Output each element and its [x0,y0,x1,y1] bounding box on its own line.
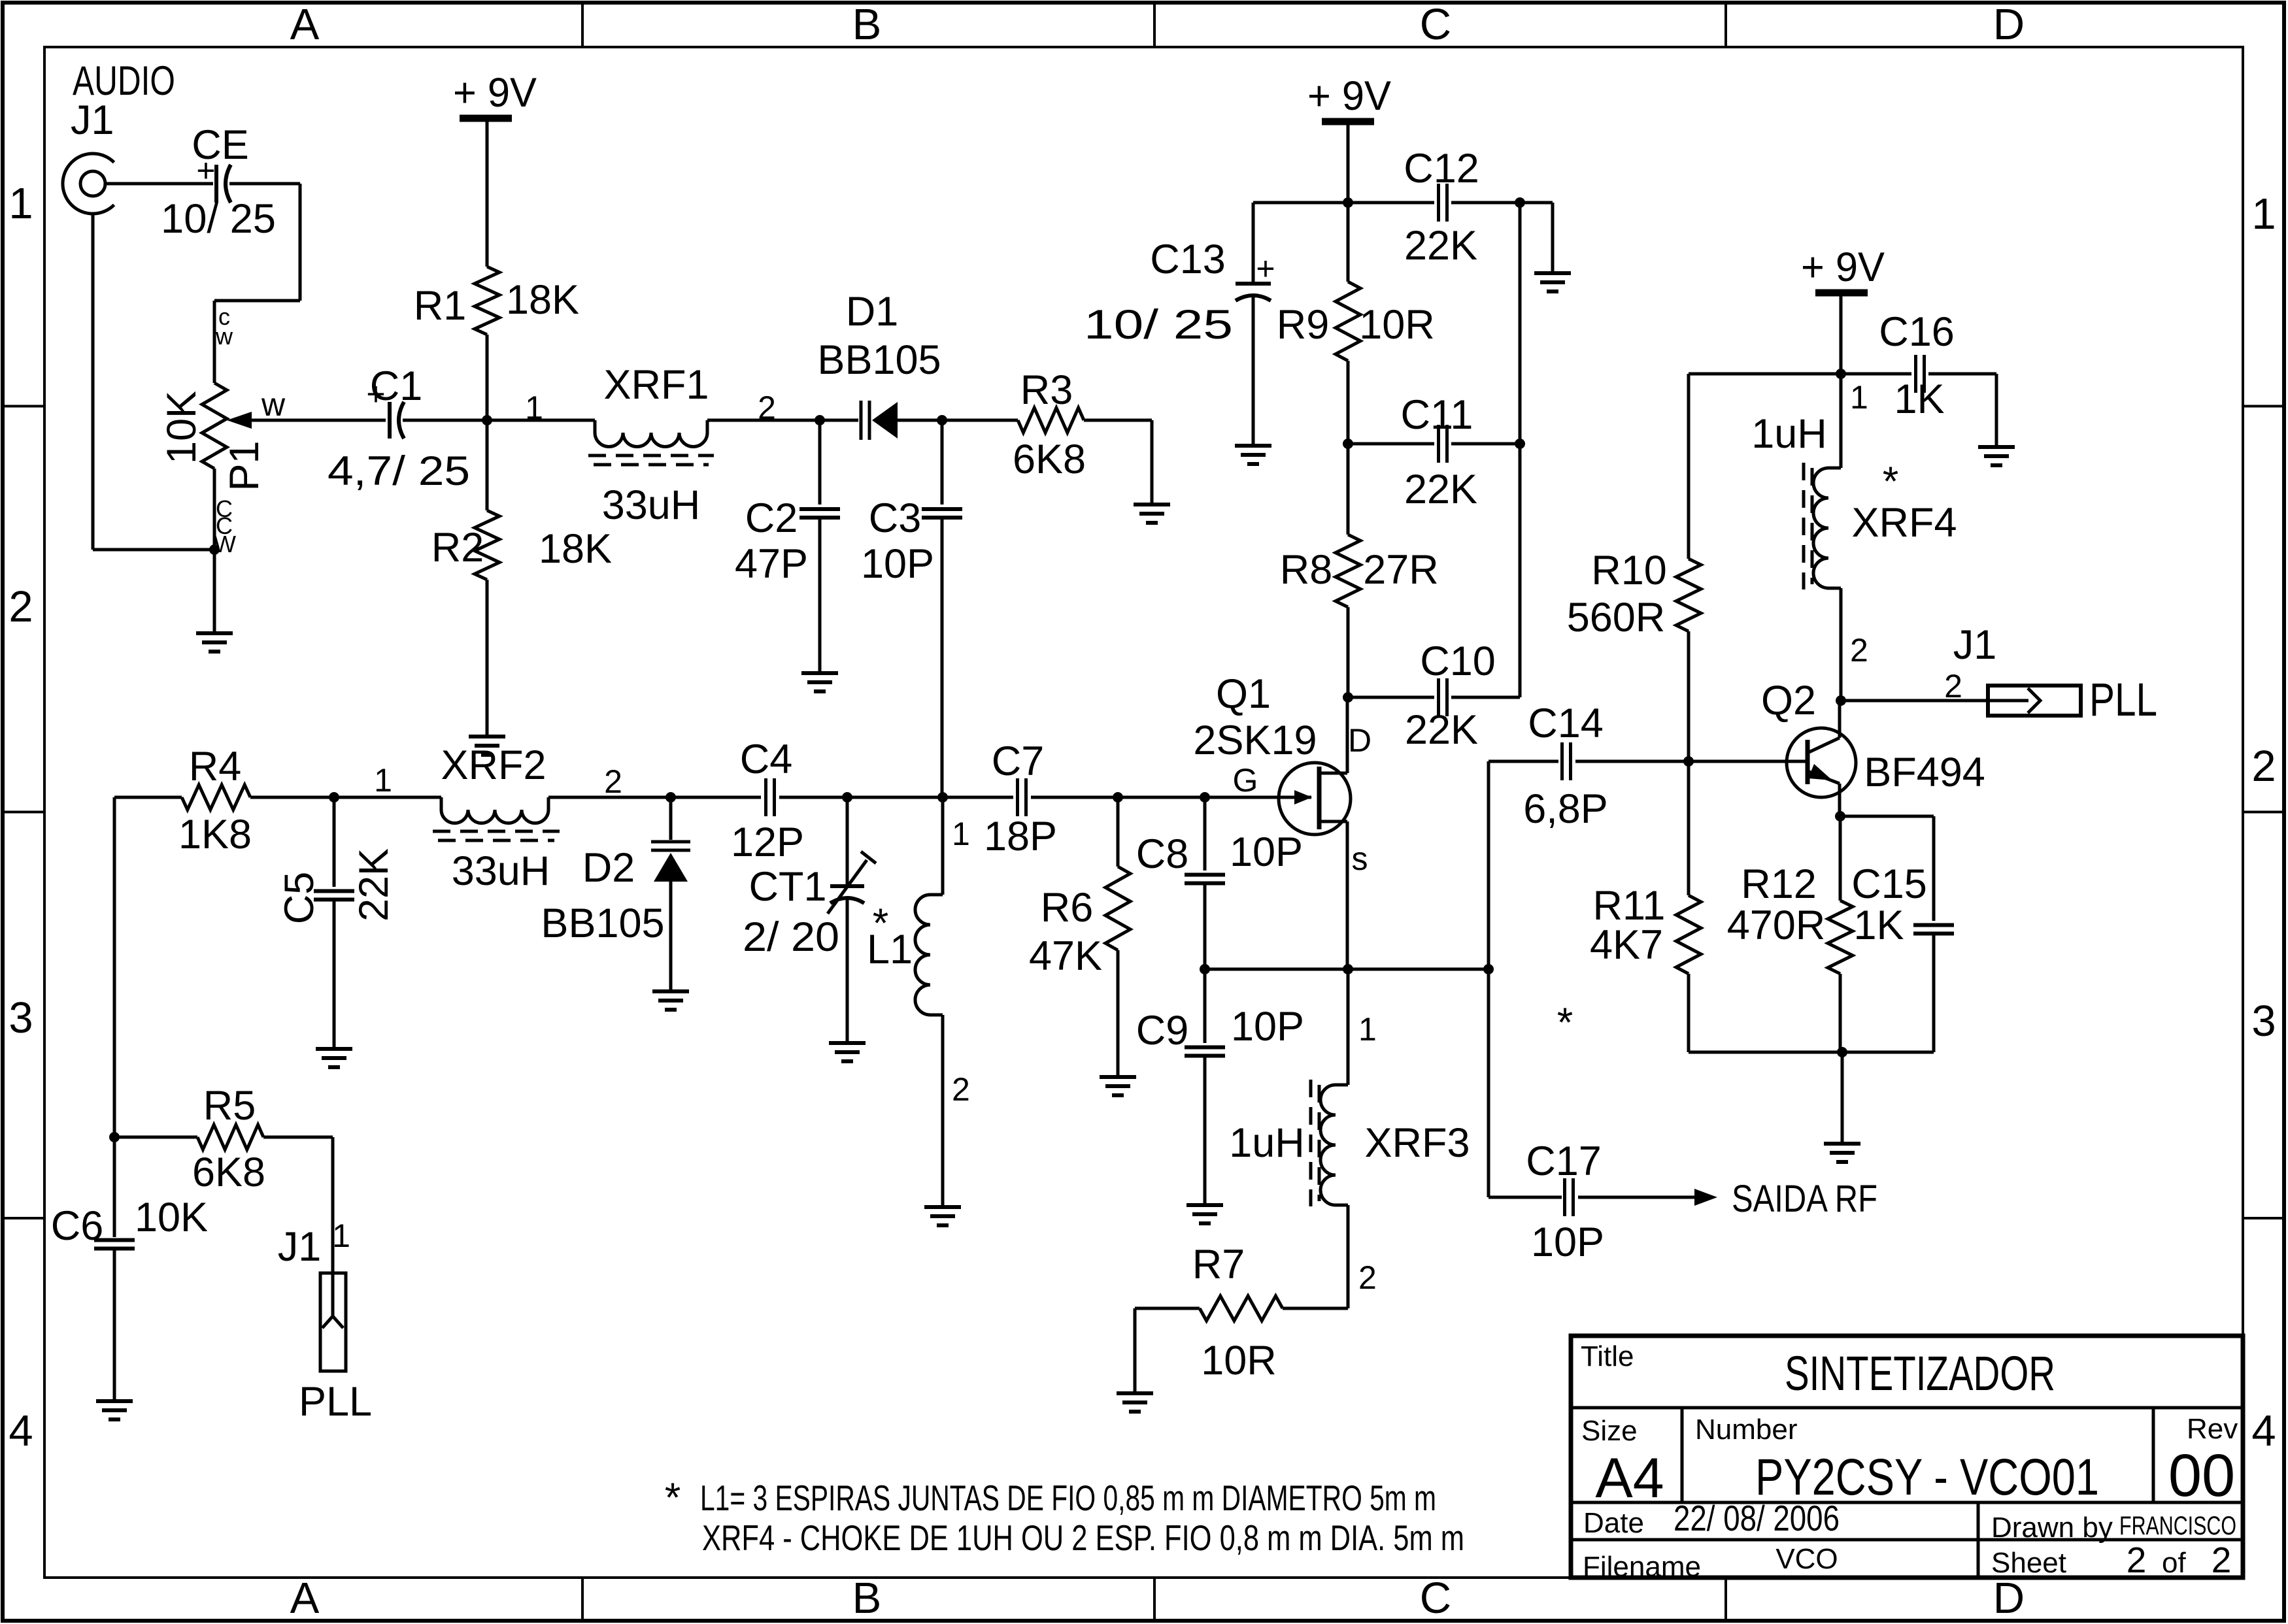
ground CT1 [829,1041,866,1045]
svg-text:1: 1 [374,762,392,799]
svg-text:C6: C6 [51,1203,104,1249]
wire C11 rail [1348,442,1434,446]
svg-text:of: of [2162,1547,2186,1579]
svg-text:XRF2: XRF2 [441,742,546,788]
capacitor C13 10/25 electrolytic [1252,203,1255,284]
svg-text:CT1: CT1 [749,864,826,910]
resistor R3 6K8 [1018,408,1084,433]
svg-text:R8: R8 [1280,547,1333,593]
node Q2 collector/XRF4/J1 junction [1836,695,1846,706]
svg-text:C17: C17 [1526,1138,1602,1184]
node C8 junction [1200,792,1210,803]
capacitor C7 18P [1016,778,1019,816]
svg-text:C11: C11 [1401,392,1473,438]
potentiometer P1 10K [202,383,227,469]
core lines XRF3 [1309,1080,1313,1206]
svg-text:10P: 10P [861,541,934,587]
svg-text:1K: 1K [1853,903,1904,948]
svg-text:1: 1 [332,1218,350,1254]
ground P1 [196,631,233,635]
connector J1 AUDIO jack [63,154,114,214]
node C5 junction [329,792,339,803]
diode D1 BB105 varicap [861,401,898,440]
svg-text:10/ 25: 10/ 25 [161,196,276,242]
svg-text:C12: C12 [1404,146,1479,191]
arrow SAIDA RF [1694,1189,1717,1206]
resistor R2 18K [475,510,499,580]
svg-text:4: 4 [2251,1406,2276,1455]
title block frame [1571,1336,2243,1578]
node C2/D1 junction [815,415,825,425]
wire mid top rail [1253,201,1434,205]
ground C5 [316,1047,352,1051]
capacitor C1 4,7/25 electrolytic [390,402,404,439]
core lines XRF1 [588,454,714,457]
resistor R6 47K [1117,797,1120,867]
wire R5 to J1 PLL [263,1136,333,1139]
svg-text:22K: 22K [1405,707,1478,753]
svg-text:18P: 18P [984,814,1057,859]
ground C9 [1186,1203,1223,1207]
capacitor C12 22K [1437,184,1440,222]
wire C12 to ground [1520,201,1553,205]
svg-text:+: + [196,152,215,189]
ground Q2 emitter [1824,1142,1860,1146]
svg-text:1K: 1K [1894,376,1944,422]
svg-text:10/ 25: 10/ 25 [1084,302,1233,348]
wire XRF2 to C4 [548,796,761,799]
svg-text:1: 1 [2251,190,2276,239]
svg-text:D: D [1993,0,2025,49]
svg-text:4,7/ 25: 4,7/ 25 [328,448,470,494]
svg-text:Rev: Rev [2187,1413,2238,1445]
capacitor C11 22K [1437,425,1440,463]
svg-text:1K8: 1K8 [178,812,252,857]
ground C6 [96,1399,133,1403]
svg-text:2: 2 [2251,742,2276,791]
svg-text:R10: R10 [1591,548,1667,593]
svg-text:R9: R9 [1277,302,1330,348]
node C14 corner junction [1483,964,1494,974]
transistor Q1 2SK19 JFET [1279,763,1351,835]
svg-text:SINTETIZADOR: SINTETIZADOR [1785,1346,2055,1400]
resistor R10 560R [1687,374,1691,559]
svg-text:C16: C16 [1879,309,1955,355]
svg-text:2: 2 [8,582,33,631]
svg-text:33uH: 33uH [452,848,550,894]
svg-text:+: + [1256,250,1275,287]
node R1/R2/C1/XRF1 junction [482,415,492,425]
svg-text:47K: 47K [1029,933,1102,979]
svg-text:A: A [290,0,320,49]
capacitor C6 10K [94,1238,135,1242]
resistor R7 10R [1283,1307,1348,1310]
wire wiper to C1 [252,419,386,422]
svg-text:1uH: 1uH [1751,411,1827,457]
svg-text:Date: Date [1583,1507,1644,1539]
svg-text:1: 1 [525,389,543,426]
inductor XRF1 33uH [595,420,707,447]
svg-text:22/ 08/ 2006: 22/ 08/ 2006 [1674,1498,1840,1538]
svg-text:2: 2 [2127,1540,2147,1580]
svg-text:Sheet: Sheet [1991,1547,2066,1579]
wire R3 to ground [1084,419,1152,422]
ground C16 [1978,445,2015,449]
resistor R4 1K8 [182,785,250,810]
wire C14 column [1487,761,1490,969]
inductor L1 [941,797,945,895]
svg-text:22K: 22K [1404,467,1477,512]
svg-text:L1= 3 ESPIRAS JUNTAS DE F: L1= 3 ESPIRAS JUNTAS DE FIO 0,85 m m DIA… [700,1478,1436,1518]
svg-text:10P: 10P [1531,1219,1604,1265]
svg-text:Size: Size [1581,1415,1638,1447]
wire junction to R2 [486,420,489,510]
inductor XRF3 1uH [1347,969,1350,1085]
column tick marks top band [581,3,584,47]
wire C16 to ground [1995,374,1998,447]
svg-text:C8: C8 [1136,831,1189,877]
svg-text:6,8P: 6,8P [1523,786,1608,832]
node +9V/R9/C12 junction [1343,197,1353,208]
svg-text:00: 00 [2168,1442,2235,1509]
svg-text:C13: C13 [1150,237,1226,282]
wire right rail [1689,373,1911,376]
wire emitter to C15 [1840,815,1934,818]
resistor R8 27R [1347,444,1350,535]
capacitor CE 10/25 electrolytic [216,165,231,203]
node R10/R11/base junction [1683,756,1694,767]
svg-text:FRANCISCO: FRANCISCO [2119,1512,2236,1540]
power +9V (right) [1801,244,1885,293]
svg-text:2/ 20: 2/ 20 [743,914,839,960]
svg-text:D: D [1993,1574,2025,1623]
svg-text:47P: 47P [735,541,808,587]
column tick marks bottom band [581,1578,584,1621]
svg-text:PLL: PLL [299,1379,372,1425]
wire +9V mid to rail [1347,122,1350,203]
node emitter junction [1835,811,1845,821]
ground R6 [1100,1075,1136,1079]
svg-text:R12: R12 [1741,861,1817,907]
wire C17 column [1487,969,1490,1197]
capacitor C17 10P [1489,1196,1562,1199]
svg-text:R6: R6 [1041,885,1094,931]
svg-text:Q2: Q2 [1761,678,1816,723]
svg-text:1: 1 [1850,379,1868,416]
svg-text:BF494: BF494 [1864,750,1985,795]
svg-text:C7: C7 [992,738,1045,784]
resistor R5 6K8 [197,1125,263,1150]
svg-text:3: 3 [8,993,33,1042]
svg-text:J1: J1 [71,97,114,143]
svg-text:10P: 10P [1230,829,1303,875]
svg-text:XRF1: XRF1 [603,362,709,408]
svg-text:4: 4 [8,1406,33,1455]
wire left column R4 down [113,797,116,1237]
svg-text:+ 9V: + 9V [1801,244,1885,290]
svg-text:C5: C5 [277,872,322,925]
ground D2 [652,989,689,993]
svg-text:33uH: 33uH [602,482,701,528]
svg-text:A: A [290,1574,320,1623]
trimmer capacitor CT1 2/20 [846,797,849,886]
wire source bus [1205,968,1489,971]
capacitor C15 1K [1913,923,1954,927]
node D2 junction [665,792,676,803]
node emitter bus ground junction [1837,1047,1847,1057]
wire right vertical C12-C10 [1519,203,1522,697]
svg-text:+ 9V: + 9V [453,70,537,116]
svg-text:C14: C14 [1528,701,1604,746]
svg-text:*: * [1557,1000,1573,1046]
connector J1 PLL (right) [1988,686,2081,716]
wire gate bus left segment [114,796,182,799]
svg-text:6K8: 6K8 [1013,437,1086,482]
wire R2 to ground [486,580,489,737]
svg-text:2: 2 [1358,1259,1377,1296]
svg-text:D: D [1348,722,1371,759]
svg-text:1: 1 [1358,1011,1377,1048]
wire J1 down to pot bottom [92,212,95,550]
capacitor C9 10P [1203,969,1207,1043]
svg-text:1uH: 1uH [1229,1120,1305,1166]
svg-text:C9: C9 [1136,1008,1189,1053]
svg-text:Number: Number [1695,1414,1798,1446]
svg-text:Title: Title [1581,1340,1634,1372]
capacitor C5 22K [333,797,336,887]
node R6 junction [1113,792,1123,803]
wire XRF1 to D1 [707,419,858,422]
svg-text:2: 2 [1850,632,1868,669]
svg-text:PY2CSY - VCO01: PY2CSY - VCO01 [1755,1448,2099,1506]
svg-text:J1: J1 [1953,622,1997,668]
wire junction to XRF1 [487,419,595,422]
svg-text:27R: 27R [1363,547,1439,593]
wire R1 to junction [486,335,489,420]
ground R3 [1134,503,1170,506]
wire to ground Q2 [1841,1052,1844,1144]
ground C13 [1235,444,1271,448]
svg-text:C2: C2 [745,495,798,541]
svg-text:470R: 470R [1727,903,1826,948]
node C3/R3 junction [937,415,947,425]
svg-text:XRF4: XRF4 [1851,500,1957,546]
capacitor C4 12P [764,778,767,816]
svg-text:R2: R2 [431,525,484,571]
ground C2 [801,671,838,675]
node R5 junction [109,1132,120,1142]
wire D1 to C3 junction [898,419,1018,422]
svg-text:C3: C3 [869,495,922,541]
ground L1 [924,1205,961,1209]
svg-text:P1: P1 [222,440,267,491]
svg-text:R4: R4 [189,744,242,789]
svg-text:+ 9V: + 9V [1307,73,1391,119]
svg-text:2: 2 [604,763,622,800]
svg-text:*: * [1883,459,1899,505]
svg-text:C4: C4 [740,737,793,782]
node Q1 source/XRF3 junction [1343,964,1353,974]
svg-text:PLL: PLL [2089,674,2157,726]
row tick marks right band [2243,405,2284,408]
svg-text:G: G [1233,762,1258,799]
svg-text:2: 2 [2212,1540,2232,1580]
svg-text:D1: D1 [846,289,899,335]
wiper arrow of P1 [227,412,252,429]
svg-text:SAIDA RF: SAIDA RF [1732,1178,1877,1220]
svg-text:R7: R7 [1192,1242,1245,1287]
svg-text:XRF4 - CHOKE DE 1UH OU: XRF4 - CHOKE DE 1UH OU 2 ESP. FIO 0,8 m … [702,1517,1464,1558]
svg-text:XRF3: XRF3 [1364,1120,1470,1166]
svg-text:B: B [852,1574,882,1623]
svg-text:D2: D2 [582,845,635,891]
svg-text:J1: J1 [278,1224,322,1270]
wire J1 to CE [105,182,213,186]
transistor Q2 BF494 [1787,728,1856,797]
wire C4 to C7 [779,796,1013,799]
svg-text:10K: 10K [135,1195,208,1240]
svg-text:C: C [1420,1574,1451,1623]
svg-text:C15: C15 [1851,861,1927,907]
svg-text:2SK19: 2SK19 [1193,718,1317,763]
svg-text:A4: A4 [1595,1447,1664,1510]
capacitor C16 1K [1914,355,1917,393]
svg-text:C10: C10 [1420,638,1496,684]
node C12 right junction [1515,197,1525,208]
svg-text:R1: R1 [414,283,467,329]
wire R4 to XRF2 [250,796,441,799]
svg-text:3: 3 [2251,997,2276,1046]
svg-text:s: s [1352,840,1368,877]
node CT1 junction [842,792,852,803]
svg-text:10R: 10R [1359,302,1435,348]
wire collector to J1 PLL [1841,699,1988,703]
capacitor C10 22K [1437,678,1440,716]
svg-text:6K8: 6K8 [192,1150,265,1195]
power +9V (left) [453,70,537,118]
svg-text:1: 1 [8,179,33,228]
inductor XRF2 33uH [441,797,548,823]
wire bottom emitter bus [1689,1051,1934,1054]
svg-text:R3: R3 [1020,367,1073,413]
wire Q1 source down [1346,821,1349,969]
svg-text:w: w [215,323,233,350]
svg-text:22K: 22K [351,848,397,921]
svg-text:w: w [261,386,286,423]
svg-text:B: B [852,0,882,49]
wire Q2 emitter down [1838,784,1842,816]
wire C10 rail [1348,696,1434,699]
svg-text:12P: 12P [731,820,804,865]
ground R2 [469,735,505,738]
connector J1 PLL (bottom) [320,1273,346,1371]
wire +9V right down [1840,293,1843,374]
resistor R9 10R [1347,203,1350,282]
wire C7 to Q1 gate [1031,796,1311,799]
svg-text:Drawn by: Drawn by [1991,1512,2113,1544]
diode D2 BB105 varicap [669,797,673,840]
svg-text:VCO: VCO [1775,1543,1838,1575]
svg-text:18K: 18K [539,526,612,572]
wire CE to corner down to pot top [229,182,300,186]
node R8/C10/Q1-drain junction [1343,692,1353,703]
node L1/C3 junction [937,792,948,803]
svg-text:Q1: Q1 [1216,671,1271,717]
svg-text:10P: 10P [1231,1004,1304,1050]
svg-text:*: * [665,1475,681,1521]
core lines XRF2 [433,830,560,833]
svg-text:10R: 10R [1201,1338,1277,1384]
svg-text:R5: R5 [203,1083,256,1129]
capacitor C14 6,8P [1489,760,1558,763]
resistor R1 18K [475,267,499,335]
junction dot P1 bottom [209,544,220,555]
capacitor C3 10P [941,420,944,505]
wire P1 to ground [213,469,216,633]
row tick marks left band [3,405,44,408]
core lines XRF4 [1802,463,1806,589]
wire Q1 drain up [1346,697,1349,773]
ground C12 [1534,271,1571,275]
svg-text:Filename: Filename [1583,1551,1701,1583]
svg-text:4K7: 4K7 [1590,922,1663,968]
svg-text:C: C [1420,0,1451,49]
node C8/C9/bus junction [1200,964,1210,974]
svg-text:560R: 560R [1567,595,1666,640]
node C11 right junction [1515,439,1525,449]
node +9V/XRF4/C16 junction [1836,369,1846,379]
svg-text:BB105: BB105 [817,337,941,383]
wire C1 to junction [403,419,487,422]
svg-text:L1: L1 [867,927,913,972]
resistor R11 4K7 [1687,761,1691,895]
svg-text:1: 1 [952,816,970,852]
inductor XRF4 1uH [1840,374,1843,468]
wire R5 left [114,1136,197,1139]
capacitor C8 10P [1203,797,1207,870]
svg-text:2: 2 [952,1071,970,1108]
svg-text:10K: 10K [159,391,205,464]
svg-text:22K: 22K [1404,223,1477,269]
capacitor C2 47P [818,420,822,505]
ground R7 [1117,1391,1153,1395]
node R9/R8/C11 junction [1343,439,1353,449]
resistor R12 470R [1839,816,1842,901]
wire +9V to R1 [486,118,489,267]
wire Q2 collector up [1838,701,1842,738]
svg-text:18K: 18K [506,277,579,323]
svg-text:+: + [366,376,385,412]
svg-text:BB105: BB105 [541,901,664,946]
power +9V (middle) [1307,73,1391,122]
